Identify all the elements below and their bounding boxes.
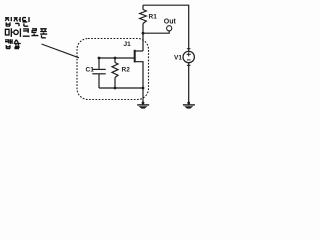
svg-text:R2: R2 xyxy=(122,67,131,74)
svg-text:R1: R1 xyxy=(149,14,158,21)
svg-text:Out: Out xyxy=(164,19,177,26)
svg-text:V1: V1 xyxy=(174,54,182,61)
svg-text:J1: J1 xyxy=(124,41,132,48)
svg-text:C1: C1 xyxy=(86,67,95,74)
